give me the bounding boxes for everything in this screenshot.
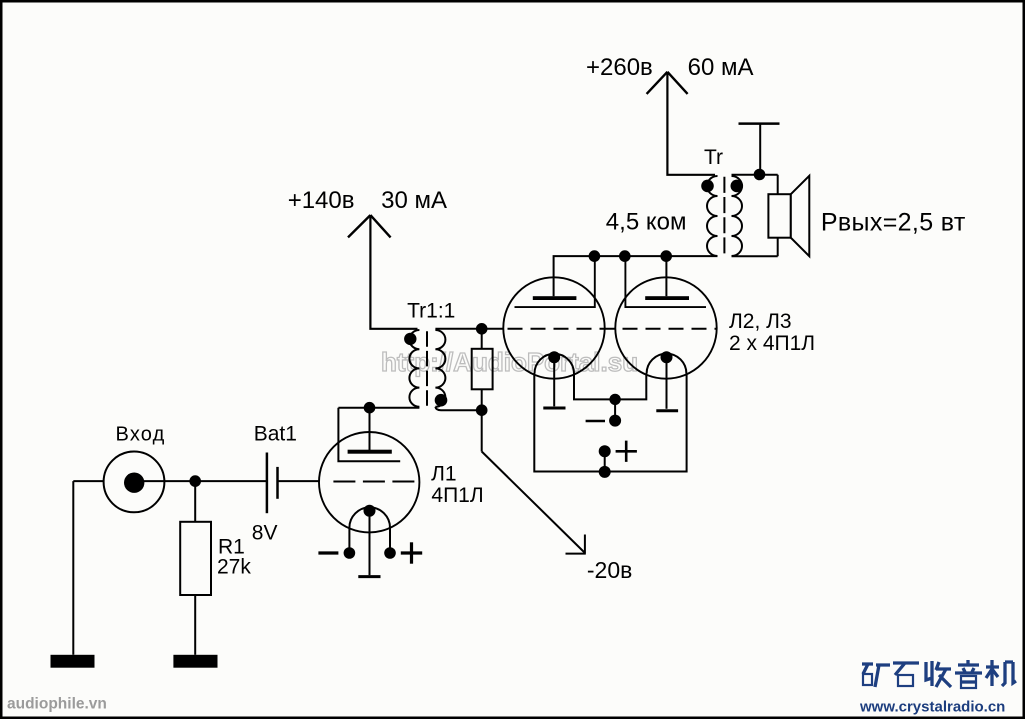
svg-text:Bat1: Bat1 <box>254 423 297 446</box>
svg-text:4П1Л: 4П1Л <box>431 484 483 507</box>
svg-text:4,5 ком: 4,5 ком <box>606 208 687 235</box>
svg-text:+260в: +260в <box>586 54 653 81</box>
svg-text:27k: 27k <box>217 555 251 578</box>
svg-text:30 мА: 30 мА <box>381 187 447 214</box>
svg-text:Л2, Л3: Л2, Л3 <box>729 310 792 333</box>
svg-text:-20в: -20в <box>587 557 632 583</box>
svg-text:60 мА: 60 мА <box>688 54 754 81</box>
svg-text:Л1: Л1 <box>431 463 456 486</box>
svg-text:2 х 4П1Л: 2 х 4П1Л <box>729 332 815 355</box>
svg-text:Вход: Вход <box>116 423 166 445</box>
svg-text:www.crystalradio.cn: www.crystalradio.cn <box>859 699 1005 716</box>
svg-text:Tr: Tr <box>704 146 723 169</box>
svg-text:+140в: +140в <box>288 187 355 214</box>
svg-text:Рвых=2,5 вт: Рвых=2,5 вт <box>821 209 966 237</box>
svg-text:audiophile.vn: audiophile.vn <box>7 696 107 713</box>
svg-text:8V: 8V <box>252 522 278 545</box>
svg-text:Tr1:1: Tr1:1 <box>407 300 455 323</box>
